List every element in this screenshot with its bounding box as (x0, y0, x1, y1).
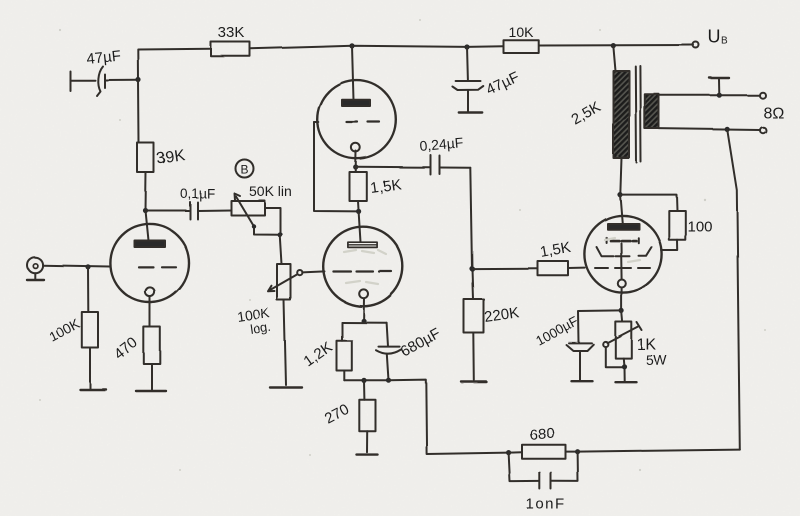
ground below 220K (461, 380, 486, 382)
ground below 270 (357, 453, 378, 455)
transformer core (635, 67, 638, 163)
beam plates (597, 247, 614, 256)
resistor 1,5K grid stopper (472, 267, 538, 269)
capacitor 47uF decoupling (466, 47, 469, 80)
wire top rail middle segment (250, 46, 504, 49)
capacitor 0,1uF (146, 210, 189, 212)
svg-text:680: 680 (529, 424, 556, 444)
node V2 anode junction (349, 43, 354, 48)
wire 0,24uF down to grid node (470, 168, 473, 299)
svg-text:10K: 10K (509, 24, 535, 40)
capacitor 680uF (387, 323, 388, 347)
node V2 cathode junction (353, 164, 358, 169)
resistor 680 feedback (522, 445, 566, 459)
svg-text:100: 100 (687, 218, 712, 235)
resistor 1,2K (337, 341, 352, 371)
resistor 33K (211, 42, 250, 56)
input terminal (27, 257, 43, 273)
node 47uF decoupling junction (464, 44, 469, 49)
resistor 100K input (87, 267, 89, 312)
capacitor 1000uF (579, 311, 622, 343)
resistor 10K (504, 40, 539, 53)
resistor 470 (144, 327, 161, 364)
potentiometer 100K log (277, 264, 291, 300)
svg-text:33K: 33K (218, 25, 245, 42)
tube V3 triode (323, 227, 403, 307)
svg-text:U: U (708, 27, 721, 47)
wire secondary bottom (659, 129, 760, 130)
ground on secondary top (718, 80, 720, 96)
wire feedback riser (727, 129, 740, 449)
ground below 100K (80, 388, 106, 390)
node V3 cathode junction (361, 318, 366, 323)
tube V4 output pentode (584, 215, 661, 292)
terminal 8ohm top (760, 92, 766, 98)
wire V2 grid to V3 anode junction (314, 122, 359, 211)
svg-text:8Ω: 8Ω (763, 105, 784, 122)
node 100K junction (85, 264, 90, 269)
terminal 8ohm bottom (760, 127, 766, 133)
svg-text:1onF: 1onF (526, 496, 566, 513)
node V1 anode junction (143, 208, 148, 213)
control grid dashes (595, 267, 650, 269)
tube V1 triode (110, 224, 189, 303)
svg-text:5W: 5W (646, 352, 668, 368)
resistor 270 (363, 380, 365, 399)
capacitor C 47uF input (70, 72, 72, 92)
ground below 47uF (459, 111, 482, 113)
wire 680 to right riser (578, 450, 740, 452)
faint scan bleed-through marks (344, 238, 640, 284)
capacitor 1nF parallel (509, 453, 539, 482)
node transformer primary junction (611, 43, 616, 48)
resistor 39K (138, 80, 141, 143)
ground below 470 (136, 390, 166, 392)
terminal UB (693, 42, 699, 48)
potentiometer 50K lin (231, 201, 265, 216)
rheostat 1K 5W (622, 311, 623, 322)
ground below 100K log (270, 386, 302, 388)
svg-text:47µF: 47µF (86, 47, 122, 68)
svg-text:log.: log. (249, 319, 272, 337)
wire to 100K log (280, 234, 282, 264)
node grid junction (469, 266, 474, 271)
transformer primary 2,5K (613, 46, 615, 71)
wire input to grid (43, 265, 110, 266)
node B circled (236, 160, 254, 178)
wire V2 cathode to 0,24uF (356, 166, 431, 169)
wire feedback to 680 (389, 380, 509, 454)
paper speckles (39, 19, 766, 471)
svg-text:50K lin: 50K lin (249, 183, 292, 199)
wire secondary top (659, 94, 759, 96)
ground below 1K (616, 381, 637, 383)
svg-text:0,1µF: 0,1µF (180, 186, 215, 201)
screen grid dashes (607, 238, 639, 243)
ground below 1000uF (572, 380, 593, 382)
svg-text:B: B (722, 36, 729, 47)
resistor 220K (464, 299, 484, 333)
transformer secondary (645, 94, 659, 128)
node V4 cathode junction (619, 308, 624, 313)
resistor 100 screen (620, 195, 677, 211)
capacitor 0,24uF (430, 155, 432, 175)
wire top rail right segment (539, 44, 694, 47)
svg-text:B: B (240, 163, 248, 177)
cathode network V3: bracket (342, 322, 387, 324)
tube V2 triode cathode follower (352, 46, 354, 100)
wire top rail left segment (138, 49, 211, 80)
wire to V1 anode (145, 173, 148, 211)
wire cathode network bottom (344, 379, 388, 381)
resistor 1,5K cathode follower (350, 172, 367, 201)
